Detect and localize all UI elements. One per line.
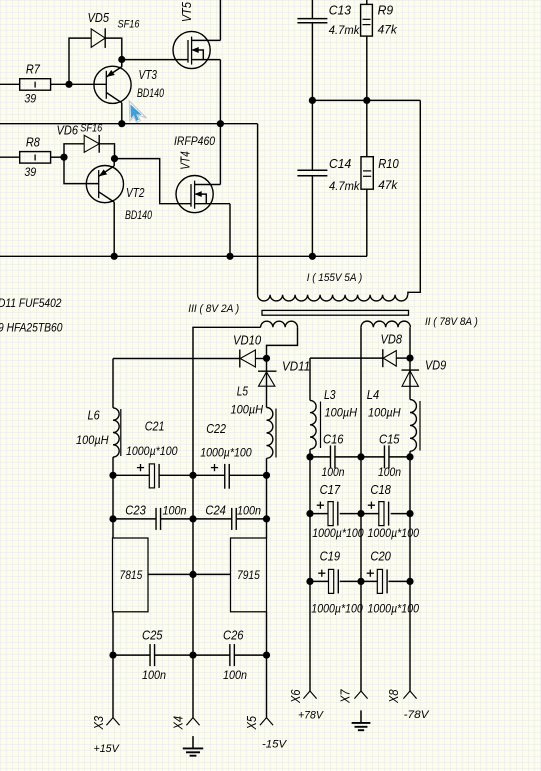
wire row C23-C24 — [113, 518, 267, 520]
node VT3 collector junction — [118, 56, 125, 63]
capacitor C18 — [368, 482, 420, 540]
wire row C21-C22 — [113, 474, 267, 476]
terminal X8 — [387, 581, 417, 703]
svg-text:C22: C22 — [206, 421, 226, 436]
capacitor C19 — [311, 549, 363, 616]
svg-text:BD140: BD140 — [125, 210, 152, 222]
svg-text:39: 39 — [24, 165, 36, 179]
wire VT3 collector down — [121, 103, 123, 124]
node VT5-VT4 junction — [217, 120, 224, 127]
wire VD6 anode leg — [64, 144, 84, 157]
wire VD6 cathode to node — [99, 144, 114, 159]
wire VT5 drain to top — [219, 0, 221, 40]
node VT2 collector junction — [111, 155, 118, 162]
wire col X5 r1-r2 — [266, 475, 268, 519]
wire VD9 through — [409, 358, 411, 400]
inductor L3 — [310, 387, 357, 449]
svg-text:100n: 100n — [322, 465, 345, 479]
wire R7 left lead — [0, 83, 20, 85]
capacitor C20 — [367, 549, 420, 616]
capacitor C23 — [125, 503, 186, 530]
node row1R right — [406, 453, 413, 460]
capacitor C16 — [322, 432, 345, 480]
node L6 row1 — [109, 472, 116, 479]
wire VD5 anode leg — [69, 38, 91, 84]
diode VD6 — [57, 122, 104, 152]
resistor R9 — [361, 0, 398, 100]
svg-text:7915: 7915 — [237, 570, 260, 582]
node regulators common — [189, 571, 196, 578]
inductor L6 — [76, 408, 121, 458]
svg-text:100µH: 100µH — [368, 405, 401, 419]
terminal X5 — [245, 655, 273, 730]
wire mid col r2-r3 — [192, 519, 194, 655]
svg-text:100n: 100n — [223, 668, 247, 682]
svg-text:III ( 8V 2A ): III ( 8V 2A ) — [188, 303, 239, 315]
wire VT2 base path — [64, 157, 99, 183]
wire L3 bottom — [309, 449, 311, 457]
node row1R left — [306, 453, 313, 460]
wire row C16-C15 — [310, 456, 410, 458]
svg-text:X3: X3 — [92, 716, 106, 730]
svg-text:C26: C26 — [223, 628, 244, 642]
transformer core — [262, 310, 409, 315]
svg-text:C20: C20 — [370, 549, 391, 564]
regulator 7915 — [231, 538, 267, 612]
node row2R mid — [357, 510, 364, 517]
capacitor C15 — [378, 432, 401, 480]
svg-text:SF16: SF16 — [118, 18, 141, 30]
svg-text:VT5: VT5 — [179, 1, 194, 22]
ground X4 — [183, 736, 203, 756]
wire 7915 input — [266, 519, 268, 538]
winding III — [188, 303, 297, 327]
svg-text:C23: C23 — [125, 503, 146, 517]
wire VD11 through — [266, 358, 268, 407]
ground X7 — [352, 710, 371, 730]
svg-text:VD10: VD10 — [233, 333, 262, 348]
svg-text:BD140: BD140 — [137, 88, 164, 100]
wire winding III right lead — [267, 327, 298, 358]
wire mid junction row — [312, 99, 420, 101]
svg-text:X7: X7 — [339, 689, 353, 704]
wire winding III left lead — [193, 327, 261, 475]
wire col X3 r1-r2 — [112, 475, 114, 519]
diode VD9 — [402, 357, 447, 386]
label -15V — [262, 738, 288, 750]
svg-text:X4: X4 — [172, 716, 186, 730]
svg-text:C24: C24 — [205, 503, 226, 517]
capacitor C26 — [223, 628, 247, 682]
label -78V — [404, 709, 431, 721]
svg-text:1000µ*100: 1000µ*100 — [311, 601, 363, 615]
svg-text:II ( 78V 8A ): II ( 78V 8A ) — [425, 316, 478, 328]
svg-text:VT3: VT3 — [139, 67, 158, 82]
svg-text:R7: R7 — [26, 62, 41, 77]
inductor L5 — [231, 383, 277, 458]
wire VT2 emitter up — [113, 159, 115, 166]
wire R7 to VT3 base — [51, 83, 107, 85]
resistor R8 — [20, 135, 51, 179]
wire VD10 cathode run — [112, 359, 114, 408]
node VT3 on bus — [118, 120, 125, 127]
svg-text:39: 39 — [24, 91, 36, 105]
svg-text:R9: R9 — [378, 2, 394, 17]
svg-text:47k: 47k — [378, 23, 398, 37]
wire colR3 r2-r3 — [409, 514, 411, 582]
node row3R right — [406, 578, 413, 585]
svg-text:C18: C18 — [370, 482, 391, 497]
svg-text:D11 FUF5402: D11 FUF5402 — [0, 298, 62, 310]
capacitor C25 — [142, 628, 166, 682]
label +15V — [94, 743, 121, 755]
terminal X3 — [92, 655, 120, 730]
wire regulators common — [148, 573, 231, 575]
diode VD11 — [258, 358, 310, 386]
wire L6 bottom — [112, 457, 114, 475]
svg-text:X5: X5 — [245, 716, 259, 730]
node R8-VD6 junction — [60, 154, 67, 161]
svg-text:+78V: +78V — [298, 710, 324, 722]
svg-text:-15V: -15V — [262, 738, 288, 750]
node row2R left — [306, 510, 313, 517]
wire colR2 r1-r2 — [360, 457, 362, 514]
svg-text:C19: C19 — [320, 549, 341, 564]
wire colR1 r1-r2 — [309, 457, 311, 514]
inductor L4 — [367, 387, 420, 451]
svg-text:C14: C14 — [329, 156, 351, 171]
svg-text:1000µ*100: 1000µ*100 — [368, 601, 420, 615]
regulator 7815 — [113, 538, 149, 612]
wire bus upper — [0, 123, 258, 125]
label VD9 HFA25TB60 — [0, 322, 63, 334]
svg-text:100n: 100n — [142, 668, 166, 682]
wire VT4 source down — [229, 204, 231, 257]
wire row C19-C20 — [310, 580, 410, 582]
svg-text:4.7mk: 4.7mk — [329, 179, 360, 193]
node L5 row1 — [263, 472, 270, 479]
svg-text:100µH: 100µH — [231, 403, 264, 417]
wire VT5 source / VT4 drain rail — [219, 60, 221, 185]
label VD11 FUF5402 — [0, 298, 62, 310]
wire VT3 emitter up — [121, 60, 123, 67]
svg-text:1000µ*100: 1000µ*100 — [368, 526, 420, 540]
wire winding II left lead — [360, 327, 362, 457]
svg-text:100µH: 100µH — [325, 405, 358, 419]
svg-text:1000µ*100: 1000µ*100 — [312, 526, 364, 540]
svg-text:100n: 100n — [378, 465, 401, 479]
svg-text:C16: C16 — [323, 432, 344, 447]
transistor VT3 — [94, 66, 165, 103]
diode VD5 — [88, 10, 141, 48]
capacitor C17 — [312, 482, 364, 540]
capacitor C14 — [297, 100, 360, 256]
wire winding II right lead — [409, 327, 411, 358]
wire VD10 horizontal — [113, 358, 240, 360]
svg-text:L4: L4 — [367, 387, 379, 402]
node row3 right — [263, 652, 270, 659]
svg-text:VT2: VT2 — [126, 185, 145, 200]
wire row C25-C26 — [113, 654, 267, 656]
wire VD5 cathode to node — [105, 38, 122, 67]
wire colR2 r2-r3 — [360, 514, 362, 582]
wire VT2 collector down — [113, 202, 115, 256]
node R7-VD5 junction — [65, 81, 72, 88]
svg-text:7815: 7815 — [120, 570, 143, 582]
node row3 left — [109, 652, 116, 659]
svg-text:+15V: +15V — [94, 743, 121, 755]
svg-text:L3: L3 — [324, 387, 336, 402]
wire colR1 r2-r3 — [309, 514, 311, 582]
svg-text:VD8: VD8 — [381, 331, 403, 346]
wire colR3 r1-r2 — [409, 457, 411, 514]
node VD8-VD9 — [406, 355, 413, 362]
node row2 left — [109, 515, 116, 522]
svg-text:C25: C25 — [142, 628, 163, 642]
label +78V — [298, 710, 324, 722]
wire bus lower — [0, 255, 367, 257]
node row2 mid — [189, 515, 196, 522]
wire col X4 r1-r2 — [192, 475, 194, 519]
node row2R right — [406, 510, 413, 517]
svg-text:100µH: 100µH — [76, 433, 109, 447]
transistor VT2 — [86, 166, 152, 223]
node mid row1 — [189, 472, 196, 479]
svg-text:C13: C13 — [329, 2, 352, 17]
terminal X4 — [172, 655, 200, 730]
svg-text:I ( 155V 5A ): I ( 155V 5A ) — [307, 272, 363, 284]
diode VD8 — [381, 331, 403, 367]
terminal X7 — [339, 581, 368, 703]
capacitor C22 — [200, 421, 252, 489]
wire primary right lead — [408, 100, 420, 294]
resistor R10 — [361, 100, 399, 256]
wire row C17-C18 — [310, 513, 410, 515]
svg-text:R8: R8 — [26, 135, 41, 150]
svg-text:SF16: SF16 — [80, 123, 103, 135]
node row3 mid — [189, 652, 196, 659]
svg-text:L6: L6 — [88, 408, 101, 423]
svg-text:100n: 100n — [163, 503, 187, 517]
svg-text:C15: C15 — [379, 432, 400, 447]
capacitor C24 — [205, 503, 261, 530]
node row2 right — [263, 515, 270, 522]
node VT2 on bus — [111, 253, 118, 260]
capacitor C13 — [297, 0, 360, 100]
svg-text:VD11: VD11 — [282, 358, 310, 373]
winding II — [361, 316, 478, 328]
wire 7815 output — [112, 612, 114, 655]
wire gate VT5 — [122, 59, 188, 61]
wire L5 bottom — [266, 458, 268, 475]
wire L4 bottom — [409, 451, 411, 457]
svg-text:100n: 100n — [237, 503, 261, 517]
svg-text:4.7mk: 4.7mk — [329, 23, 360, 37]
svg-text:VD6: VD6 — [57, 122, 79, 137]
svg-text:9 HFA25TB60: 9 HFA25TB60 — [0, 322, 63, 334]
svg-text:47k: 47k — [378, 178, 398, 192]
svg-text:1000µ*100: 1000µ*100 — [200, 445, 252, 459]
svg-text:IRFP460: IRFP460 — [174, 136, 216, 148]
svg-text:L5: L5 — [237, 383, 249, 398]
svg-text:R10: R10 — [378, 156, 399, 171]
node row3R mid — [357, 578, 364, 585]
wire L3 top lead — [309, 358, 311, 400]
winding I primary — [258, 272, 408, 301]
svg-text:VD9: VD9 — [425, 357, 446, 372]
svg-text:X8: X8 — [387, 689, 401, 703]
svg-text:X6: X6 — [289, 689, 303, 703]
diode VD10 — [233, 333, 262, 368]
wire VD8 horizontal — [310, 357, 383, 359]
wire 7815 input — [112, 519, 114, 538]
wire 7915 output — [266, 612, 268, 655]
node C13-C14 — [309, 97, 316, 104]
wire R8 left lead — [0, 156, 20, 158]
svg-text:VD5: VD5 — [88, 10, 110, 25]
svg-text:VT4: VT4 — [178, 151, 193, 170]
node row1R mid — [357, 453, 364, 460]
node R9-R10 — [363, 97, 370, 104]
mouse cursor — [129, 101, 146, 123]
node row3R left — [306, 578, 313, 585]
terminal X6 — [289, 581, 317, 703]
svg-text:C17: C17 — [320, 482, 341, 497]
wire rail to primary — [257, 124, 259, 295]
transistor VT5 — [173, 1, 220, 68]
svg-text:-78V: -78V — [404, 709, 431, 721]
node VD10-VD11 — [263, 355, 270, 362]
node C14 on bus — [309, 253, 316, 260]
wire gate VT4 path — [115, 159, 192, 204]
node VT4 on bus — [226, 253, 233, 260]
wire VD10 anode lead — [255, 358, 266, 360]
wire R8 right lead — [51, 156, 64, 158]
transistor VT4 — [174, 136, 230, 213]
wire VD8 anode lead — [396, 357, 410, 359]
svg-text:1000µ*100: 1000µ*100 — [126, 444, 178, 458]
resistor R7 — [20, 62, 51, 106]
capacitor C21 — [126, 419, 178, 488]
svg-text:C21: C21 — [145, 419, 165, 434]
